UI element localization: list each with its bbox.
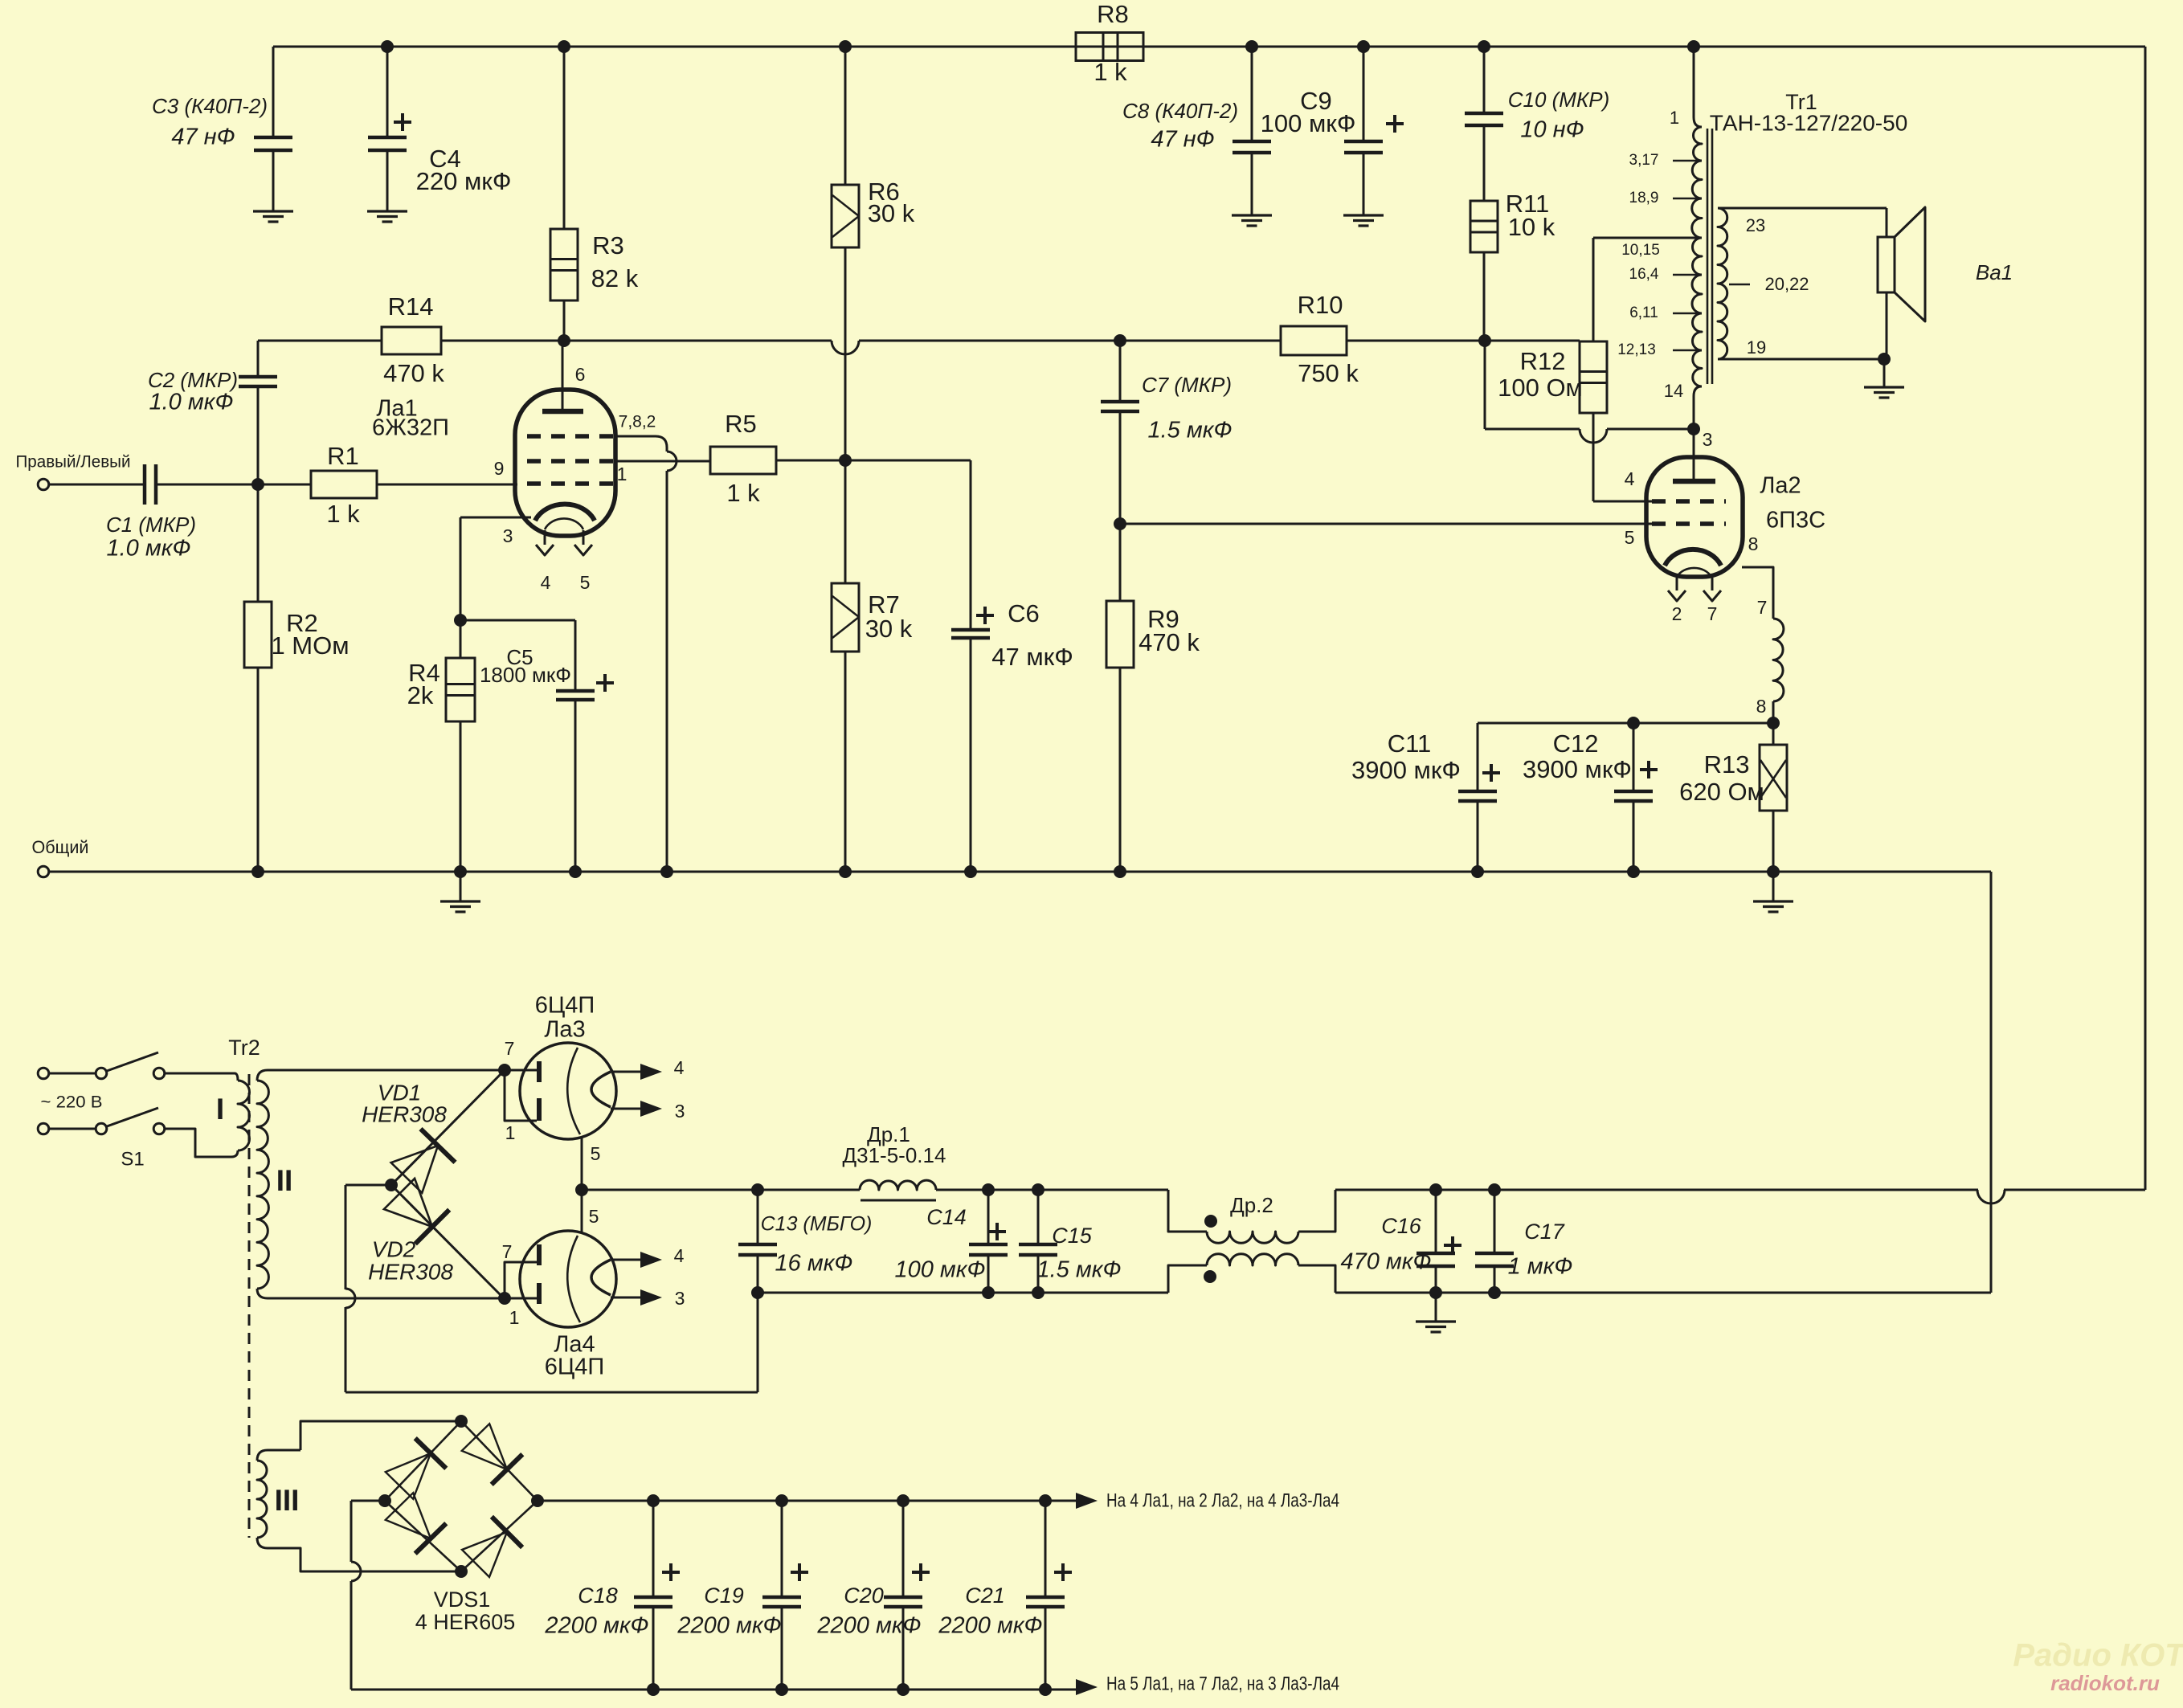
svg-text:30 k: 30 k — [865, 615, 913, 643]
capacitor C1x at 813 — [652, 1501, 655, 1597]
svg-text:1 МОм: 1 МОм — [271, 631, 349, 660]
svg-text:6Ц4П: 6Ц4П — [545, 1355, 605, 1380]
svg-text:10 нФ: 10 нФ — [1520, 117, 1584, 143]
svg-text:4: 4 — [674, 1245, 685, 1266]
ground symbol right — [1772, 872, 1775, 901]
Tr1 core — [1707, 129, 1709, 384]
La2 grid2 dashed — [1652, 499, 1726, 504]
svg-text:R13: R13 — [1704, 750, 1750, 778]
node La4 anode — [498, 1292, 511, 1305]
capacitor C1x at 973 — [781, 1501, 783, 1597]
La3 cathode pin5 lead — [581, 1137, 583, 1233]
wire row 424 left — [258, 340, 382, 342]
svg-text:На 5 Ла1, на 7 Ла2, на 3 Ла3-Л: На 5 Ла1, на 7 Ла2, на 3 Ла3-Ла4 — [1106, 1673, 1339, 1694]
node C4 top — [381, 40, 394, 53]
svg-text:С20: С20 — [844, 1583, 884, 1608]
svg-text:С13 (МБГО): С13 (МБГО) — [761, 1213, 873, 1236]
svg-text:4: 4 — [1625, 468, 1635, 489]
heater DC top rail nodes — [647, 1494, 660, 1507]
svg-text:R10: R10 — [1298, 291, 1343, 319]
svg-text:19: 19 — [1747, 337, 1766, 358]
node R9 gnd — [1114, 865, 1126, 878]
svg-text:4: 4 — [674, 1057, 685, 1078]
svg-text:3900 мкФ: 3900 мкФ — [1523, 755, 1632, 783]
VDS1 diode bottom-right — [462, 1532, 507, 1577]
tube La4 envelope — [520, 1231, 616, 1327]
node C15 top — [1032, 1183, 1044, 1196]
Dr2 dot top — [1204, 1215, 1217, 1228]
svg-text:5: 5 — [1625, 527, 1635, 548]
Tr1 primary winding — [1694, 127, 1703, 161]
tube La3 envelope — [520, 1043, 616, 1139]
node R5 R6 R7 — [839, 454, 852, 467]
capacitor C4 — [386, 47, 389, 137]
node g782 gnd — [660, 865, 673, 878]
svg-text:Ва1: Ва1 — [1976, 260, 2013, 284]
wire to R12 top — [1485, 340, 1580, 342]
resistor R12 — [1580, 341, 1607, 413]
svg-text:С15: С15 — [1052, 1224, 1093, 1248]
svg-text:100 мкФ: 100 мкФ — [894, 1257, 985, 1283]
switch S1 bottom pole — [49, 1128, 95, 1130]
Tr1 secondary top lead 23 — [1718, 207, 1887, 210]
La1 anode — [562, 341, 564, 411]
svg-text:VD2: VD2 — [372, 1236, 416, 1261]
svg-text:С10 (МКР): С10 (МКР) — [1508, 88, 1610, 112]
svg-text:HER308: HER308 — [368, 1259, 453, 1284]
resistor R7 — [844, 460, 847, 583]
Tr2 primary I winding — [235, 1073, 238, 1081]
svg-text:20,22: 20,22 — [1764, 274, 1809, 294]
terminal Obschiy — [38, 866, 49, 877]
capacitor C15 — [1037, 1190, 1040, 1244]
Tr1 cathode winding 7-8 — [1773, 619, 1784, 701]
resistor R5 — [710, 447, 776, 474]
B+ rail — [582, 1189, 860, 1191]
La2 heater arc — [1677, 568, 1711, 577]
svg-text:R14: R14 — [388, 292, 434, 321]
svg-text:С12: С12 — [1553, 729, 1599, 758]
svg-text:radiokot.ru: radiokot.ru — [2050, 1671, 2160, 1695]
wire R1 to grid La1 — [377, 484, 517, 486]
VDS1 diode top-right — [462, 1424, 507, 1469]
svg-text:7,8,2: 7,8,2 — [619, 413, 656, 431]
Tr1 primary lead — [1694, 47, 1702, 127]
wire bridge minus to bottom rail — [351, 1500, 385, 1502]
node R7 gnd — [839, 865, 852, 878]
svg-text:Правый/Левый: Правый/Левый — [16, 453, 131, 472]
node B+ rail start — [575, 1183, 588, 1196]
svg-text:100 мкФ: 100 мкФ — [1261, 109, 1356, 137]
node C14 bottom — [982, 1286, 995, 1299]
node C13 top — [751, 1183, 764, 1196]
capacitor C16 — [1435, 1190, 1437, 1253]
node C7 top — [1114, 334, 1126, 347]
La4 anode bars — [505, 1297, 537, 1300]
node C10 top — [1478, 40, 1490, 53]
svg-text:3: 3 — [675, 1288, 685, 1309]
node C17 top — [1488, 1183, 1501, 1196]
svg-text:1: 1 — [505, 1122, 516, 1143]
ground bus — [49, 871, 1991, 873]
La1 grid2 dashed — [527, 459, 614, 464]
node R4 gnd — [454, 865, 467, 878]
return rail — [758, 1292, 1168, 1294]
svg-text:C16: C16 — [1381, 1214, 1422, 1238]
svg-text:6Ж32П: 6Ж32П — [372, 415, 449, 441]
La2 cathode arc — [1665, 550, 1721, 566]
svg-text:С11: С11 — [1388, 729, 1432, 758]
svg-text:С18: С18 — [578, 1583, 618, 1608]
svg-text:7: 7 — [1757, 597, 1768, 618]
svg-text:14: 14 — [1664, 381, 1683, 401]
node anode La1 — [558, 334, 570, 347]
svg-text:3900 мкФ: 3900 мкФ — [1351, 756, 1461, 784]
La4 pin7 jog — [505, 1262, 537, 1298]
svg-text:С3 (К40П-2): С3 (К40П-2) — [152, 94, 268, 118]
resistor R4 — [446, 658, 475, 721]
svg-text:750 k: 750 k — [1298, 359, 1359, 387]
svg-text:82 k: 82 k — [591, 264, 639, 292]
resistor R8 — [1076, 33, 1143, 61]
svg-text:II: II — [276, 1164, 293, 1197]
capacitor C8 — [1251, 47, 1253, 141]
svg-text:47 мкФ: 47 мкФ — [991, 643, 1073, 671]
node C6 gnd — [964, 865, 977, 878]
svg-text:6: 6 — [575, 364, 586, 385]
node speaker bottom — [1878, 353, 1891, 366]
resistor R6 — [844, 47, 847, 185]
svg-text:VDS1: VDS1 — [434, 1587, 491, 1612]
bridge VDS1 — [455, 1415, 468, 1428]
ground C8 — [1251, 190, 1253, 215]
node La3 anode — [498, 1064, 511, 1077]
svg-text:470 k: 470 k — [1139, 628, 1200, 656]
svg-text:1 мкФ: 1 мкФ — [1508, 1254, 1573, 1280]
Tr2 core dashed — [248, 1074, 251, 1538]
ground C16 — [1435, 1293, 1437, 1322]
diode VD1 — [391, 1070, 505, 1185]
capacitor C1x at 1124 — [902, 1501, 905, 1597]
wire node to C6 — [845, 460, 971, 462]
tube La1 envelope — [515, 390, 615, 536]
heater DC bottom rail nodes — [647, 1683, 660, 1696]
svg-text:6П3С: 6П3С — [1766, 508, 1825, 533]
svg-text:10 k: 10 k — [1508, 213, 1555, 241]
diode VD2 — [391, 1185, 505, 1299]
Dr2 dot bottom — [1204, 1270, 1216, 1283]
capacitor C11 — [1477, 723, 1479, 791]
svg-text:3: 3 — [675, 1101, 685, 1122]
svg-text:Ла3: Ла3 — [544, 1017, 585, 1043]
La3 pin1 jog — [505, 1070, 537, 1121]
capacitor C14 — [987, 1190, 990, 1244]
terminal AC bottom — [38, 1123, 49, 1134]
svg-text:1: 1 — [1670, 108, 1679, 128]
node R3 top — [558, 40, 570, 53]
Tr1 secondary tap 20,22 — [1729, 284, 1750, 286]
node R13 gnd — [1767, 865, 1780, 878]
svg-text:4: 4 — [541, 572, 551, 593]
speaker Ba1 — [1886, 208, 1888, 237]
svg-text:C17: C17 — [1524, 1220, 1565, 1244]
La1 heater arc — [545, 518, 583, 529]
ground C9 — [1363, 190, 1365, 215]
svg-text:1800 мкФ: 1800 мкФ — [480, 663, 571, 687]
node VD mid — [385, 1179, 398, 1191]
capacitor C3 — [272, 47, 275, 137]
La3 cathode arc — [591, 1072, 611, 1107]
svg-text:R1: R1 — [327, 442, 359, 470]
Tr2 secondary II winding — [257, 1070, 268, 1081]
svg-text:III: III — [275, 1484, 300, 1517]
resistor R3 — [563, 47, 566, 229]
node C11 gnd — [1471, 865, 1484, 878]
svg-text:2: 2 — [1672, 603, 1682, 624]
B+ rail after Dr2 — [1335, 1189, 1978, 1191]
svg-text:R8: R8 — [1097, 0, 1129, 28]
wire row 900 C11 C12 R13 — [1478, 722, 1773, 725]
wire II top to La3 — [268, 1069, 505, 1072]
svg-text:Д31-5-0.14: Д31-5-0.14 — [843, 1143, 946, 1167]
svg-text:С2 (МКР): С2 (МКР) — [148, 368, 238, 392]
svg-text:620 Ом: 620 Ом — [1679, 778, 1764, 806]
node R11 bottom — [1478, 334, 1491, 347]
capacitor C5 — [574, 620, 577, 691]
resistor R11 — [1470, 201, 1498, 252]
svg-text:2200 мкФ: 2200 мкФ — [816, 1613, 921, 1639]
resistor R14 — [382, 327, 441, 354]
svg-text:1.5 мкФ: 1.5 мкФ — [1037, 1257, 1122, 1283]
node C13 bottom — [751, 1286, 764, 1299]
svg-text:18,9: 18,9 — [1629, 190, 1659, 206]
svg-text:1: 1 — [617, 464, 628, 484]
svg-text:470 k: 470 k — [383, 359, 444, 387]
svg-text:1 k: 1 k — [1094, 58, 1127, 86]
node R6 top — [839, 40, 852, 53]
resistor R2 — [257, 484, 260, 602]
node C17 bottom — [1488, 1286, 1501, 1299]
svg-text:6Ц4П: 6Ц4П — [535, 993, 595, 1019]
svg-text:Радио КОТ: Радио КОТ — [2013, 1638, 2183, 1673]
capacitor C2 — [257, 341, 260, 377]
Tr1 secondary bottom lead 19 — [1718, 358, 1884, 361]
node La2 anode — [1687, 423, 1700, 435]
switch S1 top pole — [49, 1073, 95, 1075]
svg-text:6,11: 6,11 — [1629, 304, 1658, 321]
La2 anode — [1693, 429, 1695, 481]
choke Dr1 — [860, 1180, 936, 1190]
svg-text:5: 5 — [591, 1143, 601, 1164]
svg-text:7: 7 — [1707, 603, 1718, 624]
node C14 top — [982, 1183, 995, 1196]
capacitor C12 — [1633, 723, 1635, 791]
La4 heater arrow pin4 — [612, 1259, 641, 1261]
ground C4 — [386, 186, 389, 211]
svg-text:1 k: 1 k — [326, 500, 360, 528]
svg-text:10,15: 10,15 — [1621, 242, 1660, 259]
wire S1 to Tr2 primary bottom — [165, 1129, 231, 1157]
svg-text:HER308: HER308 — [362, 1101, 447, 1126]
svg-text:16 мкФ: 16 мкФ — [775, 1251, 853, 1277]
wire II bottom to La4 — [268, 1297, 505, 1300]
wire R12 bottom to La2 grid2 — [1592, 413, 1595, 501]
svg-text:S1: S1 — [121, 1148, 144, 1170]
svg-text:5: 5 — [580, 572, 591, 593]
resistor R13 fusible — [1772, 723, 1775, 745]
svg-text:C14: C14 — [926, 1205, 967, 1229]
wire III bottom to bridge — [268, 1548, 461, 1571]
svg-text:Др.2: Др.2 — [1230, 1193, 1273, 1217]
resistor R10 — [1281, 326, 1347, 355]
La1 pin1 lead to R5 — [615, 460, 710, 463]
wire row 534 R11 node to La2 anode node — [1484, 341, 1486, 429]
La3 heater arc — [567, 1048, 580, 1134]
svg-text:R5: R5 — [725, 410, 757, 438]
La4 heater arc — [567, 1236, 580, 1322]
svg-text:2200 мкФ: 2200 мкФ — [544, 1613, 648, 1639]
La1 grid1 dashed — [527, 481, 614, 486]
svg-text:16,4: 16,4 — [1629, 266, 1659, 283]
wire ground bus drop right — [1990, 872, 1993, 1293]
Tr1 primary bottom lead to anode node — [1694, 386, 1702, 429]
wire row 424 with hop over R6 column — [564, 340, 832, 342]
svg-text:C6: C6 — [1008, 599, 1040, 627]
capacitor C10 — [1483, 47, 1486, 113]
svg-text:1.5 мкФ: 1.5 мкФ — [1148, 418, 1233, 443]
svg-text:С19: С19 — [704, 1583, 744, 1608]
La1 pins 7,8,2 lead to ground column — [614, 436, 667, 452]
svg-text:470 мкФ: 470 мкФ — [1340, 1249, 1431, 1275]
svg-text:4 HER605: 4 HER605 — [415, 1610, 516, 1634]
Tr2 winding III — [257, 1450, 268, 1461]
wire R12 top to Tr1 tap 10,15 — [1592, 238, 1595, 341]
La3 anode bars — [505, 1069, 537, 1072]
svg-text:8: 8 — [1748, 533, 1759, 554]
svg-text:1.0 мкФ: 1.0 мкФ — [107, 536, 191, 562]
La1 cathode arc — [535, 505, 595, 521]
wire grid row La2 — [1114, 517, 1126, 530]
arrow heater minus output — [1045, 1689, 1077, 1691]
ground speaker — [1883, 359, 1886, 387]
resistor R9 — [1119, 524, 1122, 601]
svg-text:С1 (МКР): С1 (МКР) — [106, 513, 196, 537]
node C12 gnd — [1627, 865, 1640, 878]
svg-text:23: 23 — [1746, 215, 1765, 235]
node C12 top — [1627, 717, 1640, 729]
wire III top to bridge — [268, 1449, 300, 1452]
La1 heater arrows pins 4 5 — [544, 530, 546, 545]
svg-text:2200 мкФ: 2200 мкФ — [938, 1613, 1042, 1639]
svg-text:7: 7 — [502, 1241, 513, 1262]
wire right B+ riser — [2144, 47, 2147, 1190]
svg-text:ТАН-13-127/220-50: ТАН-13-127/220-50 — [1710, 110, 1908, 135]
node C9 top — [1357, 40, 1370, 53]
svg-text:9: 9 — [494, 458, 505, 479]
node C16 bottom — [1429, 1286, 1442, 1299]
capacitor C1x at 1301 — [1044, 1501, 1047, 1597]
VDS1 diode top-left — [386, 1453, 431, 1499]
arrow heater plus output — [1045, 1500, 1077, 1502]
svg-text:С7 (МКР): С7 (МКР) — [1142, 373, 1232, 397]
La2 grid1 dashed — [1652, 521, 1726, 526]
svg-text:12,13: 12,13 — [1617, 341, 1656, 358]
terminal input Pravy/Levy — [38, 479, 49, 490]
capacitor C17 — [1494, 1190, 1496, 1253]
resistor R1 — [258, 484, 311, 486]
svg-text:I: I — [216, 1093, 224, 1126]
ground symbol main — [460, 872, 462, 901]
svg-text:С8 (К40П-2): С8 (К40П-2) — [1122, 99, 1238, 123]
terminal AC top — [38, 1068, 49, 1079]
svg-text:1 k: 1 k — [726, 479, 760, 507]
svg-text:3: 3 — [503, 525, 513, 546]
svg-text:1.0 мкФ: 1.0 мкФ — [149, 390, 234, 415]
choke Dr2 top winding — [1168, 1190, 1207, 1232]
ground C3 — [272, 186, 275, 211]
node R13 top — [1767, 717, 1780, 729]
capacitor C6 — [970, 460, 972, 630]
svg-text:На 4 Ла1, на 2 Ла2, на 4 Ла3-Л: На 4 Ла1, на 2 Ла2, на 4 Ла3-Ла4 — [1106, 1489, 1339, 1511]
svg-text:1: 1 — [509, 1307, 520, 1328]
node Tr1 pin1 top — [1687, 40, 1700, 53]
wire VD mid to return rail — [345, 1184, 391, 1187]
capacitor C1 — [49, 484, 145, 486]
svg-text:7: 7 — [505, 1038, 515, 1059]
Tr1 secondary winding — [1718, 208, 1727, 359]
return rail after Dr2 — [1335, 1292, 1991, 1294]
svg-text:~ 220 В: ~ 220 В — [41, 1093, 103, 1112]
wire top B+ bus — [273, 46, 2145, 48]
La4 cathode arc — [591, 1260, 611, 1295]
svg-text:Общий: Общий — [32, 837, 89, 857]
capacitor C7 — [1119, 341, 1122, 402]
node C5 gnd — [569, 865, 582, 878]
node C8 top — [1245, 40, 1258, 53]
svg-text:3,17: 3,17 — [1629, 152, 1659, 169]
svg-text:R3: R3 — [592, 231, 624, 259]
La3 heater arrow pin4 — [612, 1071, 641, 1073]
capacitor C13 — [757, 1190, 759, 1244]
node C16 top — [1429, 1183, 1442, 1196]
svg-text:2k: 2k — [407, 681, 434, 709]
wire R14 to node — [441, 340, 564, 342]
svg-text:2200 мкФ: 2200 мкФ — [677, 1613, 781, 1639]
La2 heater arrows pins 2 7 — [1676, 578, 1678, 590]
svg-text:100 Ом: 100 Ом — [1498, 374, 1583, 402]
svg-text:5: 5 — [589, 1206, 599, 1227]
node C15 bottom — [1032, 1286, 1044, 1299]
node cathode R4 C5 — [454, 614, 467, 627]
svg-text:30 k: 30 k — [868, 199, 915, 227]
svg-text:47 нФ: 47 нФ — [171, 125, 235, 150]
wire bridge plus to top rail — [538, 1500, 1045, 1502]
La3 heater arrow pin3 — [611, 1108, 641, 1110]
svg-text:47 нФ: 47 нФ — [1151, 127, 1214, 153]
svg-text:8: 8 — [1756, 696, 1767, 717]
node R2 gnd — [251, 865, 264, 878]
svg-text:Tr2: Tr2 — [228, 1036, 260, 1060]
La2 cathode pin8 lead — [1742, 567, 1773, 619]
svg-text:С21: С21 — [965, 1583, 1005, 1608]
svg-text:R12: R12 — [1520, 347, 1566, 375]
svg-text:Ла2: Ла2 — [1760, 473, 1801, 499]
choke Dr2 bottom winding — [1168, 1265, 1207, 1293]
capacitor C9 — [1363, 47, 1365, 141]
svg-text:220 мкФ: 220 мкФ — [416, 167, 512, 195]
La1 grid3 dashed — [527, 434, 614, 439]
VDS1 diode bottom-left — [386, 1493, 431, 1538]
